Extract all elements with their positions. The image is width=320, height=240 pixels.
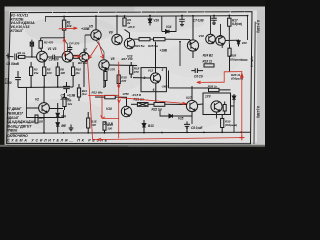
svg-text:10к: 10к bbox=[67, 24, 72, 28]
svg-text:270: 270 bbox=[120, 79, 126, 83]
scan background bbox=[0, 0, 265, 150]
resistor R9 bbox=[63, 93, 66, 110]
svg-text:(Обрыв): (Обрыв) bbox=[225, 123, 237, 127]
svg-text:V12: V12 bbox=[148, 69, 154, 73]
svg-text:РЛВОЕ: РЛВОЕ bbox=[7, 128, 19, 132]
resistor R17 bbox=[228, 15, 231, 30]
red box around V10 bbox=[89, 96, 119, 119]
frame left bbox=[7, 13, 11, 144]
diode V4 bbox=[56, 103, 59, 122]
svg-text:КТ361Г: КТ361Г bbox=[11, 29, 24, 33]
svg-text:С7 0,68: С7 0,68 bbox=[193, 18, 204, 22]
resistor R1 bbox=[62, 16, 65, 37]
resistor R23 bbox=[139, 38, 150, 41]
svg-text:R24 В2: R24 В2 bbox=[203, 53, 214, 57]
svg-text:-14В: -14В bbox=[161, 85, 168, 89]
+15V inner rail bbox=[46, 16, 248, 17]
red diagonal into V7 bbox=[89, 46, 98, 59]
vertical text right margin bbox=[250, 20, 260, 119]
transistor V19 top bbox=[216, 36, 226, 46]
svg-text:12к: 12к bbox=[67, 102, 72, 106]
resistor R8 bbox=[56, 62, 59, 87]
svg-text:С1 50мВ: С1 50мВ bbox=[6, 62, 19, 66]
svg-text:V8: V8 bbox=[111, 57, 115, 61]
wire V9 emitter row bbox=[134, 39, 191, 45]
svg-text:100: 100 bbox=[60, 71, 65, 75]
svg-text:(Обрыв): (Обрыв) bbox=[231, 77, 243, 81]
svg-text:+18В: +18В bbox=[160, 48, 168, 52]
transistor V2 bbox=[39, 87, 63, 133]
resistor R14 bbox=[103, 122, 106, 133]
transistor V1 bbox=[37, 51, 48, 62]
red bottom horizontal bbox=[93, 138, 242, 140]
svg-text:V2: V2 bbox=[35, 98, 39, 102]
title underline bbox=[7, 145, 128, 148]
left margin shade bbox=[5, 7, 10, 147]
frame top / +supply rail bbox=[11, 11, 253, 14]
resistor R22 bbox=[148, 103, 187, 107]
wire drop x180 bbox=[179, 42, 181, 66]
svg-text:С4* 270: С4* 270 bbox=[69, 41, 80, 45]
resistor R21 crossed bbox=[131, 103, 148, 107]
resistor R3 bbox=[30, 62, 33, 87]
svg-text:1750: 1750 bbox=[122, 92, 129, 96]
capacitor C5 bbox=[63, 82, 70, 93]
bus wire bbox=[18, 86, 73, 89]
red plus mark bbox=[240, 135, 245, 140]
transistor V3 bbox=[62, 51, 73, 62]
svg-text:В1 1к: В1 1к bbox=[18, 51, 26, 55]
diode V10h bbox=[162, 30, 172, 34]
transistor V11 bbox=[124, 30, 134, 49]
svg-text:R25 5м: R25 5м bbox=[148, 44, 159, 48]
svg-text:V20: V20 bbox=[242, 41, 248, 45]
svg-text:8 (-15В): 8 (-15В) bbox=[256, 106, 260, 119]
svg-text:(Обрыв): (Обрыв) bbox=[230, 57, 242, 61]
red vertical long left bbox=[88, 60, 93, 139]
parts list text top-left bbox=[11, 13, 35, 33]
resistor R2 bbox=[19, 55, 25, 58]
resistor R28 bbox=[228, 44, 231, 71]
svg-text:1000: 1000 bbox=[5, 81, 12, 85]
bottom black band bbox=[0, 147, 265, 151]
resistor R18 bbox=[204, 64, 214, 67]
svg-text:100: 100 bbox=[47, 71, 52, 75]
capacitor C2 bbox=[48, 55, 62, 60]
transistor V8 bbox=[99, 60, 137, 87]
svg-text:С6 С9: С6 С9 bbox=[194, 74, 203, 78]
capacitor C8 bbox=[184, 122, 190, 133]
wire bias row bbox=[41, 37, 64, 39]
svg-text:1У8: 1У8 bbox=[205, 94, 211, 98]
transistor V20 bbox=[211, 101, 222, 112]
svg-text:(20: (20 bbox=[39, 119, 44, 123]
transistor V9 bbox=[112, 16, 122, 45]
red step up bbox=[224, 72, 242, 83]
resistor R26 bbox=[169, 71, 231, 92]
diode V6 on rail bbox=[148, 16, 152, 26]
red wire trace down to V1 bbox=[63, 38, 66, 56]
transistor V18 top bbox=[206, 34, 216, 44]
svg-text:ВФ: ВФ bbox=[61, 124, 66, 128]
resistor R4 crossed bbox=[30, 40, 33, 57]
frame bottom bbox=[7, 142, 251, 144]
red bottom arrowhead bbox=[98, 138, 102, 141]
resistor R30 bbox=[221, 114, 224, 132]
resistor R4 vertical on rail bbox=[123, 16, 126, 26]
transistor V7 bbox=[79, 50, 89, 88]
paper bbox=[5, 7, 266, 147]
caption under frame bbox=[7, 134, 108, 143]
resistor R6 bbox=[73, 55, 78, 58]
svg-text:R12 68к: R12 68к bbox=[92, 90, 103, 94]
red arrowhead up right bbox=[241, 74, 244, 79]
ground rail bbox=[11, 132, 251, 133]
diode V13 bbox=[142, 120, 146, 133]
svg-text:V7: V7 bbox=[83, 47, 87, 51]
svg-text:V1 V3: V1 V3 bbox=[48, 47, 57, 51]
parts list text bottom-left bbox=[7, 107, 36, 132]
svg-text:С8 0,мЕ: С8 0,мЕ bbox=[191, 126, 203, 130]
resistor R29 bbox=[223, 102, 226, 115]
svg-text:V5: V5 bbox=[89, 25, 93, 29]
svg-text:В13: В13 bbox=[148, 124, 154, 128]
capacitor C1 bbox=[15, 54, 19, 61]
svg-text:6,8(см): 6,8(см) bbox=[232, 22, 242, 26]
transistor V17 bbox=[186, 86, 197, 118]
svg-text:+20: +20 bbox=[217, 34, 222, 38]
paper grain bbox=[5, 7, 266, 147]
svg-text:В9 33к: В9 33к bbox=[78, 61, 88, 65]
svg-text:V9: V9 bbox=[109, 30, 113, 34]
red vertical mid bbox=[117, 62, 120, 138]
wire V18 V19 to rail bbox=[211, 16, 239, 41]
svg-text:V16: V16 bbox=[153, 19, 159, 23]
red arrow into V7 left bbox=[73, 55, 82, 57]
resistor R12 bbox=[95, 95, 127, 106]
red diagonal into V17 bbox=[118, 98, 186, 105]
transistor V16 bbox=[187, 16, 198, 58]
svg-text:R26 1к: R26 1к bbox=[208, 84, 218, 88]
wire to diode V10h bbox=[162, 16, 176, 32]
svg-text:В17 330: В17 330 bbox=[122, 57, 133, 61]
svg-text:3: 3 bbox=[162, 68, 164, 72]
caps C6 C9 bbox=[191, 68, 203, 73]
svg-text:7 (Вых): 7 (Вых) bbox=[250, 56, 254, 67]
svg-text:V10: V10 bbox=[106, 107, 112, 111]
svg-text:R18 11: R18 11 bbox=[203, 59, 213, 63]
svg-text:8 (+15В): 8 (+15В) bbox=[256, 20, 260, 34]
node bbox=[31, 56, 33, 58]
diode V20 bbox=[237, 40, 240, 47]
resistor R5 bbox=[43, 62, 46, 87]
svg-text:V15: V15 bbox=[178, 117, 184, 121]
svg-text:+0,3В: +0,3В bbox=[67, 94, 76, 98]
resistor R10 bbox=[72, 62, 75, 87]
red diagonal V5 to V8 bbox=[99, 42, 104, 59]
resistor R2 bbox=[39, 38, 42, 52]
red vertical right bbox=[241, 72, 243, 138]
svg-text:R23 5м: R23 5м bbox=[135, 44, 146, 48]
diode V21 bbox=[232, 94, 235, 103]
capacitor C7 on rail bbox=[211, 16, 217, 25]
transistor V10 bbox=[121, 106, 131, 116]
svg-text:(2к: (2к bbox=[76, 71, 81, 75]
svg-text:+20,8: +20,8 bbox=[127, 25, 135, 29]
svg-text:470: 470 bbox=[133, 70, 139, 74]
svg-text:V14: V14 bbox=[166, 25, 172, 29]
red horizontal right mid bbox=[197, 81, 224, 84]
red arrow +15V bbox=[59, 27, 77, 29]
capacitor C7a on rail bbox=[179, 16, 185, 26]
svg-text:С2*180: С2*180 bbox=[49, 57, 59, 61]
svg-text:33к: 33к bbox=[34, 71, 39, 75]
transistor V12 bbox=[133, 42, 161, 103]
capacitor C3 electrolytic bbox=[15, 71, 21, 88]
input terminal bbox=[6, 54, 13, 59]
svg-text:2: 2 bbox=[143, 76, 146, 80]
resistor R19 bbox=[130, 62, 133, 78]
svg-text:СКЛЮЧЕНО: СКЛЮЧЕНО bbox=[7, 134, 28, 138]
svg-text:V18: V18 bbox=[199, 34, 205, 38]
resistor R15 bbox=[117, 70, 120, 88]
wire to V1 base bbox=[25, 56, 37, 58]
svg-text:100: 100 bbox=[107, 127, 112, 131]
diode V15h bbox=[165, 114, 178, 118]
resistor R11 bbox=[77, 84, 80, 101]
wire feedback loop bbox=[27, 87, 64, 117]
frame right (double) bbox=[251, 12, 253, 144]
svg-text:R22 1м: R22 1м bbox=[152, 107, 163, 111]
capacitor C4 bbox=[68, 45, 73, 51]
misc wires right bbox=[65, 16, 248, 133]
resistor R25 bbox=[154, 38, 166, 41]
resistor R13 bbox=[35, 115, 38, 123]
svg-text:-23,5 В: -23,5 В bbox=[131, 93, 141, 97]
resistor R16 bbox=[87, 112, 90, 133]
svg-text:R2 470: R2 470 bbox=[44, 40, 54, 44]
ground symbol bbox=[69, 125, 74, 131]
svg-text:6: 6 bbox=[153, 88, 155, 92]
svg-text:(1м: (1м bbox=[82, 92, 88, 96]
transistor V5 bbox=[85, 16, 101, 40]
svg-text:V17: V17 bbox=[186, 96, 192, 100]
diode V7 bbox=[56, 123, 59, 133]
